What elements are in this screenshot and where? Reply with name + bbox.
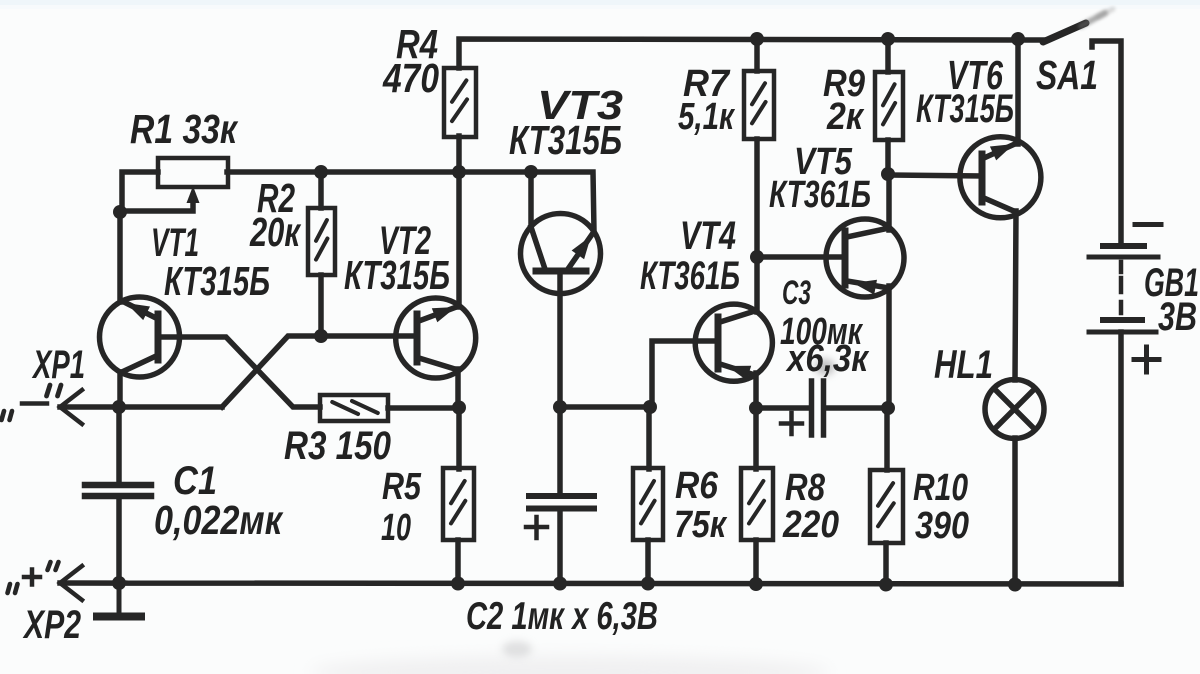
junction node R3/VT2/R5 xyxy=(452,401,466,415)
wire C3 left lead xyxy=(756,405,810,411)
junction node HL1 bottom rail xyxy=(1008,578,1022,592)
wire VT3 base lead xyxy=(557,271,563,407)
transistor VT3 collector diagonal xyxy=(531,227,545,269)
wire R9 top lead xyxy=(885,39,891,72)
svg-text:2к: 2к xyxy=(826,96,864,138)
wire node C2 to R6 xyxy=(560,404,649,410)
ground symbol xyxy=(117,583,122,612)
junction node R2 top xyxy=(314,165,328,179)
wire VT5 upper xyxy=(886,174,892,230)
junction node XP2/C1/ground xyxy=(112,576,126,590)
XP1 close quote xyxy=(47,385,51,396)
svg-text:0,022мк: 0,022мк xyxy=(154,497,284,543)
wire R7 bottom to VT4 xyxy=(754,139,760,312)
capacitor C2 plus sign xyxy=(526,525,547,530)
transistor VT2 body xyxy=(396,298,476,378)
resistor R1 (variable) body xyxy=(158,158,228,187)
wire VT2 emitter xyxy=(456,172,462,307)
transistor VT1 collector diagonal xyxy=(122,356,156,372)
wire crossover XP1-to-VT2-base xyxy=(222,336,417,407)
battery GB1 cell2 short plate xyxy=(1103,317,1142,323)
svg-text:HL1: HL1 xyxy=(934,343,993,387)
wire VT5 base lead xyxy=(757,254,843,260)
transistor VT5 emitter diagonal xyxy=(847,281,889,288)
svg-text:С2 1мк х 6,3В: С2 1мк х 6,3В xyxy=(466,595,658,638)
resistor R2 body xyxy=(308,208,335,275)
wire VT6 base lead xyxy=(888,175,981,176)
wire battery minus to SA1 contact xyxy=(1092,41,1121,244)
XP2 plus mark xyxy=(24,575,40,580)
junction node R6 bottom rail xyxy=(641,577,655,591)
bottom smudge 1 xyxy=(310,656,830,674)
battery GB1 dashed link xyxy=(1119,262,1124,313)
svg-text:КТ315Б: КТ315Б xyxy=(344,252,450,298)
junction node VT3 collector rail xyxy=(524,165,538,179)
transistor VT1 emitter diagonal xyxy=(122,301,156,318)
transistor VT6 emitter arrow xyxy=(990,144,1014,160)
XP2 open quote xyxy=(8,584,11,593)
wire C2 top lead xyxy=(557,407,563,494)
transistor VT3 body xyxy=(521,214,601,294)
junction node VT3 base/C2 xyxy=(553,400,567,414)
transistor VT4 collector diagonal xyxy=(720,311,755,322)
junction node R4/VT2 rail xyxy=(452,165,466,179)
transistor VT4 emitter diagonal xyxy=(720,364,755,375)
svg-text:390: 390 xyxy=(915,505,969,547)
wire VT2 collector xyxy=(455,369,461,408)
transistor VT3 emitter arrow xyxy=(572,236,591,259)
wire VT1 collector bottom xyxy=(117,372,123,407)
battery plus sign xyxy=(1134,357,1159,362)
capacitor C1 plates xyxy=(85,482,151,489)
lamp HL1 xyxy=(985,380,1044,439)
wire R5 bottom lead xyxy=(455,540,461,584)
plug XP1 arrow xyxy=(60,390,82,424)
wire HL1 bottom lead xyxy=(1012,438,1018,585)
resistor R8 body xyxy=(741,468,773,540)
bottom smudge 2 xyxy=(502,641,532,657)
transistor VT6 collector diagonal xyxy=(984,198,1016,212)
capacitor C2 plates xyxy=(529,493,594,499)
svg-text:R1 33к: R1 33к xyxy=(130,106,239,152)
wire XP1 to crossover xyxy=(60,404,222,410)
junction node VT6 rail xyxy=(1011,32,1025,46)
wire VT6 lower to HL1 xyxy=(1015,211,1016,380)
svg-text:ХР2: ХР2 xyxy=(22,603,81,647)
wire R6 top lead xyxy=(646,407,652,469)
transistor VT5 emitter arrow xyxy=(853,280,877,295)
junction node C2 bottom rail xyxy=(553,577,567,591)
capacitor C3 plates xyxy=(809,381,815,435)
svg-text:3В: 3В xyxy=(1158,295,1197,339)
battery GB1 cell1 long plate xyxy=(1089,255,1158,260)
junction node R7/VT5 base xyxy=(750,250,764,264)
wire R10 top lead xyxy=(884,408,890,470)
svg-text:R3 150: R3 150 xyxy=(284,424,391,468)
battery minus sign xyxy=(1135,222,1161,227)
svg-text:75к: 75к xyxy=(674,504,727,546)
svg-text:SA1: SA1 xyxy=(1036,52,1098,98)
wire R2 top lead xyxy=(318,172,324,208)
transistor VT1 emitter arrow xyxy=(126,303,150,320)
capacitor C3 plus sign xyxy=(781,421,802,426)
wire R5 top lead xyxy=(456,408,462,469)
wire VT3 collector xyxy=(528,172,534,228)
XP1 minus mark xyxy=(22,401,47,406)
wire R10 bottom lead xyxy=(883,543,889,585)
battery GB1 cell1 short plate xyxy=(1103,243,1144,249)
smudge under C3 label xyxy=(815,359,835,375)
wire R8 top lead xyxy=(753,408,759,469)
junction node VT4/C3/R8 xyxy=(749,401,763,415)
wire C3 right lead xyxy=(826,405,888,411)
svg-text:10: 10 xyxy=(381,507,411,549)
junction node VT5/C3/R10 xyxy=(881,401,895,415)
wire R6 bottom lead xyxy=(645,540,651,584)
transistor VT2 collector diagonal xyxy=(419,358,458,370)
arrowhead R1 wiper xyxy=(187,186,200,203)
switch SA1 lever xyxy=(1043,23,1086,42)
svg-text:КТ315Б: КТ315Б xyxy=(509,117,622,163)
svg-text:х6,3к: х6,3к xyxy=(785,338,869,380)
top blue tint xyxy=(0,0,1200,5)
wire R7 top lead xyxy=(754,39,760,71)
junction node XP1/VT1 xyxy=(112,400,126,414)
transistor VT6 emitter diagonal xyxy=(984,143,1017,158)
switch SA1 lever smudge xyxy=(1081,13,1105,26)
svg-text:R8: R8 xyxy=(785,467,826,509)
transistor VT4 body xyxy=(695,304,772,381)
junction node VT4 base/R6 xyxy=(643,400,657,414)
wire R4 top lead and top supply rail xyxy=(459,39,1046,68)
svg-text:VT4: VT4 xyxy=(680,214,736,258)
transistor VT4 emitter arrow xyxy=(727,366,751,381)
svg-text:С3: С3 xyxy=(782,274,811,312)
wire VT1 emitter top xyxy=(117,212,123,302)
transistor VT1 body xyxy=(100,297,180,377)
resistor R7 body xyxy=(744,71,774,139)
svg-text:470: 470 xyxy=(382,55,439,101)
wire C1 bottom lead xyxy=(116,497,122,583)
wire R1 left lead xyxy=(122,172,158,212)
svg-text:5,1к: 5,1к xyxy=(678,96,735,138)
transistor VT5 collector diagonal xyxy=(847,228,889,237)
wire R2 bottom lead xyxy=(318,275,324,336)
wire R4 bottom lead xyxy=(456,136,462,172)
wire bottom common rail xyxy=(60,583,1121,584)
wire R8 bottom lead xyxy=(753,540,759,584)
resistor R4 body xyxy=(444,68,476,137)
wire R9 bottom lead xyxy=(885,140,891,174)
junction node R2 bottom/VT2 base xyxy=(314,329,328,343)
resistor R5 body xyxy=(443,468,474,540)
wire battery plus down to rail xyxy=(1118,332,1124,584)
svg-text:ХР1: ХР1 xyxy=(32,343,85,387)
wire R3 right lead xyxy=(388,405,459,411)
svg-text:R10: R10 xyxy=(913,467,968,509)
junction node R5 bottom rail xyxy=(451,577,465,591)
svg-text:R6: R6 xyxy=(675,465,719,507)
resistor R3 body xyxy=(320,395,388,421)
wire R1 wiper lead xyxy=(121,200,193,211)
svg-text:КТ315Б: КТ315Б xyxy=(916,87,1014,131)
junction node R7 top rail xyxy=(750,32,764,46)
transistor VT5 body xyxy=(826,219,904,297)
transistor VT2 emitter diagonal xyxy=(419,306,459,321)
XP2 close quote xyxy=(48,562,51,570)
wire VT6 upper to rail xyxy=(1015,39,1021,144)
wire R1 row rail to VT3 emitter xyxy=(227,172,594,231)
svg-text:220: 220 xyxy=(782,504,839,546)
resistor R6 body xyxy=(633,468,663,540)
svg-text:КТ361Б: КТ361Б xyxy=(640,254,740,298)
junction node R8 bottom rail xyxy=(749,577,763,591)
transistor VT2 emitter arrow xyxy=(432,307,456,322)
transistor VT3 emitter diagonal xyxy=(568,233,593,269)
svg-text:КТ361Б: КТ361Б xyxy=(769,174,871,216)
wire C2 bottom lead xyxy=(557,511,563,584)
svg-text:КТ315Б: КТ315Б xyxy=(164,258,270,304)
battery GB1 cell2 long plate xyxy=(1089,330,1156,335)
wire VT4 base lead xyxy=(652,341,716,407)
XP1 open quote xyxy=(2,411,5,420)
wire VT4 lower to C3 node xyxy=(753,373,759,408)
wire C1 top lead xyxy=(116,407,122,482)
junction node R1-left/VT1 xyxy=(113,205,127,219)
resistor R9 body xyxy=(875,72,903,140)
transistor VT6 body xyxy=(960,137,1041,218)
junction node R10 bottom rail xyxy=(879,578,893,592)
junction node R9 top rail xyxy=(881,32,895,46)
wire VT1 base to crossover to R3 xyxy=(160,337,320,407)
plug XP2 arrow xyxy=(60,566,82,600)
svg-text:R5: R5 xyxy=(382,466,422,508)
junction node R9/VT6 base xyxy=(881,167,895,181)
resistor R10 body xyxy=(870,470,903,543)
wire VT5 lower xyxy=(886,286,892,408)
svg-text:20к: 20к xyxy=(249,209,301,255)
